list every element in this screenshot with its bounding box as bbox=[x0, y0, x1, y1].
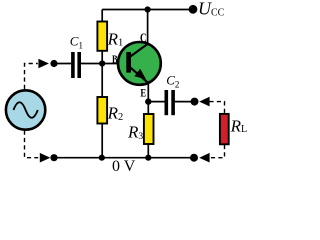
capacitor C2 bbox=[165, 90, 169, 115]
wire top supply rail bbox=[102, 9, 193, 11]
wire R1 top lead bbox=[101, 10, 103, 23]
terminal Ucc dot bbox=[189, 5, 198, 14]
wire dashed output top to RL bbox=[209, 102, 224, 114]
arrow output top bbox=[199, 97, 209, 107]
node input top dot bbox=[50, 60, 57, 67]
node input bottom dot bbox=[50, 154, 57, 161]
svg-text:RL: RL bbox=[230, 116, 248, 135]
arrow input bottom bbox=[40, 153, 51, 163]
svg-text:C2: C2 bbox=[166, 72, 179, 89]
wire C2 to output dot bbox=[175, 101, 195, 103]
node B junction dot bbox=[99, 60, 105, 66]
resistor R2 bbox=[97, 97, 107, 124]
svg-text:R1: R1 bbox=[107, 29, 124, 48]
wire R3 top lead bbox=[147, 102, 149, 114]
svg-text:R2: R2 bbox=[107, 104, 124, 123]
svg-text:UCC: UCC bbox=[198, 0, 225, 19]
wire dashed source to input bottom bbox=[25, 131, 39, 158]
transistor Q1 emitter stroke bbox=[129, 66, 149, 83]
wire R3 bottom lead bbox=[147, 144, 149, 158]
resistor R3 bbox=[144, 114, 154, 144]
wire dashed source to input top bbox=[25, 64, 38, 90]
resistor R1 bbox=[97, 22, 107, 51]
wire emitter lead bbox=[147, 84, 149, 102]
transistor Q1 body bbox=[118, 42, 161, 85]
svg-text:C1: C1 bbox=[70, 34, 83, 51]
resistor RL bbox=[220, 114, 229, 144]
wire dashed RL to output bottom bbox=[209, 145, 224, 158]
wire R1 bottom lead to node B bbox=[101, 51, 103, 64]
wire input dot to C1 bbox=[54, 63, 71, 65]
transistor Q1 emitter arrow bbox=[134, 69, 146, 80]
node emitter junction dot bbox=[145, 98, 151, 104]
wire R2 top lead bbox=[101, 64, 103, 98]
wire bottom 0V rail bbox=[54, 157, 194, 159]
svg-text:R3: R3 bbox=[127, 122, 143, 141]
node collector rail junction dot bbox=[145, 6, 151, 12]
node output top dot bbox=[191, 98, 199, 106]
node R2 bottom rail dot bbox=[99, 155, 105, 161]
wire C1 to node B bbox=[81, 63, 102, 65]
transistor Q1 collector stroke bbox=[129, 44, 148, 58]
svg-text:C: C bbox=[140, 30, 147, 45]
node output bottom dot bbox=[190, 154, 198, 162]
svg-text:0 V: 0 V bbox=[112, 158, 136, 175]
arrow input top bbox=[38, 59, 49, 69]
arrow output bottom bbox=[199, 153, 209, 163]
svg-text:E: E bbox=[140, 85, 146, 99]
wire R2 bottom lead bbox=[101, 124, 103, 158]
wire collector lead bbox=[147, 10, 149, 45]
wire emitter node to C2 bbox=[148, 101, 164, 103]
node R3 bottom rail dot bbox=[145, 155, 151, 161]
sine wave of V1 bbox=[13, 102, 37, 118]
capacitor C1 bbox=[71, 52, 75, 78]
wire base lead bbox=[102, 63, 127, 65]
transistor Q1 base bar bbox=[126, 52, 131, 73]
voltage source V1 bbox=[6, 90, 45, 129]
